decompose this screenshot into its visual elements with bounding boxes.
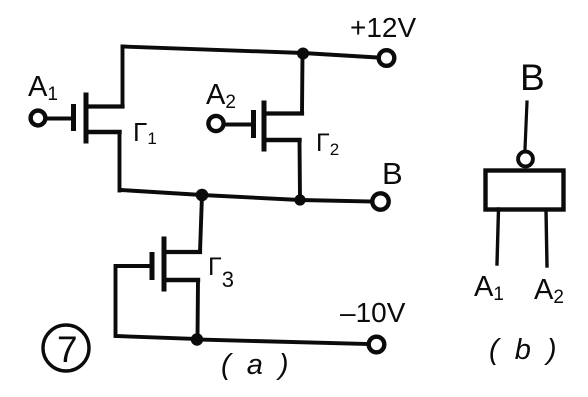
terminal A1 bbox=[31, 111, 46, 126]
wire T1 source down bbox=[118, 132, 122, 191]
junction dot node B right bbox=[294, 194, 305, 205]
svg-text:+12V: +12V bbox=[350, 12, 416, 43]
wire B lead (b-diagram) bbox=[525, 102, 527, 149]
svg-text:B: B bbox=[520, 57, 545, 98]
wire node B rail bbox=[121, 190, 372, 202]
wire T3 source down bbox=[196, 280, 200, 339]
wire T2 drain up bbox=[300, 55, 304, 114]
transistor T2 bbox=[254, 103, 303, 149]
terminal +12V bbox=[379, 50, 395, 66]
transistor T1 bbox=[74, 95, 123, 141]
svg-text:Γ3: Γ3 bbox=[208, 253, 234, 292]
junction dot top rail bbox=[297, 48, 309, 60]
terminal B bbox=[372, 193, 388, 209]
wire A2 to T2 gate bbox=[225, 123, 251, 127]
wire T1 drain up bbox=[121, 47, 125, 107]
terminal A2 bbox=[208, 116, 223, 131]
svg-text:A1: A1 bbox=[474, 271, 504, 305]
svg-text:7: 7 bbox=[57, 329, 78, 370]
svg-text:–10V: –10V bbox=[340, 297, 406, 328]
junction dot bottom rail bbox=[191, 333, 203, 345]
wire T3 gate loop bbox=[116, 266, 198, 339]
wire node B to T3 drain bbox=[200, 195, 202, 252]
wire leg A2 (b-diagram) bbox=[546, 210, 547, 266]
figure number 7 bbox=[43, 325, 89, 371]
wire leg A1 (b-diagram) bbox=[497, 209, 499, 264]
wire T2 source down bbox=[298, 140, 302, 200]
wire A1 to T1 gate bbox=[46, 117, 71, 121]
svg-text:A2: A2 bbox=[206, 79, 236, 113]
svg-text:( a ): ( a ) bbox=[221, 349, 293, 381]
junction dot node B left bbox=[196, 189, 209, 202]
gate box (b-diagram) bbox=[486, 171, 564, 210]
svg-text:A2: A2 bbox=[534, 274, 564, 308]
svg-text:Γ2: Γ2 bbox=[316, 129, 339, 159]
svg-text:( b ): ( b ) bbox=[489, 334, 561, 366]
terminal -10V bbox=[369, 337, 385, 353]
inversion bubble (b-diagram) bbox=[518, 152, 533, 167]
svg-text:Γ1: Γ1 bbox=[133, 117, 157, 148]
svg-text:A1: A1 bbox=[28, 71, 58, 105]
transistor T3 bbox=[152, 239, 200, 289]
svg-text:B: B bbox=[382, 156, 403, 191]
wire top rail bbox=[123, 47, 378, 58]
wire bottom rail to -10V bbox=[197, 340, 368, 345]
